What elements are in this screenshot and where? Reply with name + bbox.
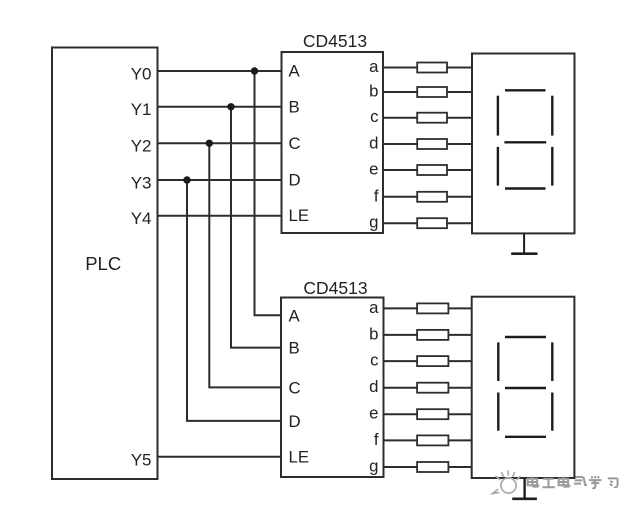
- DS1 segment c: [551, 147, 553, 186]
- junction dot node C: [206, 140, 213, 147]
- watermark char 学: [589, 476, 601, 488]
- svg-text:c: c: [370, 351, 378, 370]
- wire U2 b to R9: [384, 334, 418, 336]
- label Y1: [131, 100, 152, 119]
- label U2 CD4513: [303, 278, 367, 298]
- svg-text:e: e: [369, 404, 378, 423]
- svg-text:Y2: Y2: [131, 137, 152, 156]
- resistor R11: [417, 383, 448, 393]
- svg-text:Y3: Y3: [131, 173, 152, 192]
- DS1 segment e: [497, 147, 499, 186]
- IC U2 CD4513 (lower) box: [281, 298, 384, 478]
- wire R4 to DS1: [447, 143, 472, 145]
- DS1 segment g: [504, 141, 546, 143]
- resistor R12: [417, 409, 448, 419]
- wire R7 to DS1: [447, 222, 472, 224]
- svg-text:b: b: [369, 82, 378, 101]
- label U1 pin C: [289, 134, 301, 153]
- wire R2 to DS1: [447, 91, 472, 93]
- resistor R6: [417, 192, 447, 202]
- resistor R14: [417, 462, 448, 472]
- resistor R7: [417, 218, 447, 228]
- wire node A branch to U2 pin A: [255, 71, 282, 315]
- DS1 segment f: [497, 96, 499, 136]
- resistor R9: [417, 330, 448, 340]
- svg-text:g: g: [369, 457, 378, 476]
- wire R10 to DS2: [448, 360, 471, 362]
- wire node B branch to U2 pin B: [231, 107, 282, 348]
- svg-text:Y5: Y5: [131, 451, 152, 470]
- svg-text:Y0: Y0: [131, 64, 152, 83]
- svg-text:a: a: [369, 298, 379, 317]
- wire R3 to DS1: [447, 117, 472, 119]
- svg-text:e: e: [369, 160, 378, 179]
- watermark char 电 (2): [559, 477, 570, 487]
- wire Y3 to U1 pin D: [158, 179, 282, 181]
- label PLC: [85, 253, 121, 274]
- resistor R3: [417, 113, 447, 123]
- label Y5: [131, 451, 152, 470]
- DS1 segment a: [505, 89, 546, 91]
- svg-text:f: f: [374, 186, 379, 205]
- wire R13 to DS2: [448, 439, 471, 441]
- ground DS1: [511, 233, 537, 253]
- label U2 pin C: [289, 378, 301, 397]
- DS2 segment g: [505, 387, 546, 389]
- resistor R2: [417, 87, 447, 97]
- label Y3: [131, 173, 152, 192]
- label U1 CD4513: [303, 31, 367, 51]
- wire Y5 to U2 pin LE: [158, 456, 282, 458]
- resistor R4: [417, 139, 447, 149]
- DS2 segment e: [497, 393, 499, 431]
- wire U2 e to R12: [384, 413, 418, 415]
- label U1 pin b: [369, 82, 378, 101]
- label U1 pin B: [289, 97, 300, 116]
- junction dot node D: [183, 176, 190, 183]
- svg-text:D: D: [289, 412, 301, 431]
- label U2 pin d: [369, 377, 378, 396]
- watermark char 工: [543, 479, 555, 487]
- svg-text:LE: LE: [289, 206, 310, 225]
- wire U2 d to R11: [384, 387, 418, 389]
- svg-text:a: a: [369, 57, 379, 76]
- PLC box: [52, 48, 158, 480]
- wire Y0 to U1 pin A: [158, 70, 282, 72]
- wire U2 f to R13: [384, 439, 418, 441]
- wire node C branch to U2 pin C: [209, 143, 281, 387]
- resistor R1: [417, 63, 447, 73]
- svg-text:f: f: [374, 430, 379, 449]
- resistor R5: [417, 165, 447, 175]
- wire R12 to DS2: [448, 413, 471, 415]
- label U1 pin D: [289, 171, 301, 190]
- label Y2: [131, 137, 152, 156]
- label U1 pin a: [369, 57, 379, 76]
- resistor R13: [417, 435, 448, 445]
- svg-text:LE: LE: [289, 448, 310, 467]
- wire R14 to DS2: [448, 466, 471, 468]
- wire R1 to DS1: [447, 67, 472, 69]
- label U1 pin A: [289, 62, 301, 81]
- 7-segment display DS2 box: [472, 297, 575, 478]
- wire R11 to DS2: [448, 387, 471, 389]
- wire U2 c to R10: [384, 360, 418, 362]
- wire U2 g to R14: [384, 466, 418, 468]
- svg-text:B: B: [289, 339, 300, 358]
- wire U1 e to R5: [383, 169, 417, 171]
- label U1 pin e: [369, 160, 378, 179]
- wire U1 b to R2: [383, 91, 417, 93]
- wire U1 g to R7: [383, 222, 417, 224]
- wire U1 c to R3: [383, 117, 417, 119]
- DS1 segment d: [505, 187, 546, 189]
- watermark text 电工电气学习: [528, 476, 618, 488]
- svg-text:CD4513: CD4513: [303, 278, 367, 298]
- wire U1 d to R4: [383, 143, 417, 145]
- svg-text:d: d: [369, 134, 378, 153]
- wire R5 to DS1: [447, 169, 472, 171]
- label U1 pin g: [369, 213, 378, 232]
- svg-text:A: A: [289, 306, 301, 325]
- label U2 pin B: [289, 339, 300, 358]
- label Y4: [131, 209, 152, 228]
- label U2 pin c: [370, 351, 378, 370]
- wire Y4 to U1 pin LE: [158, 215, 282, 217]
- watermark char 习: [608, 478, 618, 487]
- svg-text:Y4: Y4: [131, 209, 152, 228]
- label U2 pin a: [369, 298, 379, 317]
- svg-text:g: g: [369, 213, 378, 232]
- svg-text:PLC: PLC: [85, 253, 121, 274]
- watermark char 电 (1): [528, 477, 539, 487]
- watermark icon lightbulb: [493, 471, 521, 494]
- wire R6 to DS1: [447, 196, 472, 198]
- DS2 segment d: [505, 436, 546, 438]
- wire Y2 to U1 pin C: [158, 142, 282, 144]
- ground DS2: [512, 478, 537, 499]
- svg-text:C: C: [289, 134, 301, 153]
- wire U1 f to R6: [383, 196, 417, 198]
- svg-text:CD4513: CD4513: [303, 31, 367, 51]
- label U1 pin LE: [289, 206, 310, 225]
- DS2 segment f: [497, 342, 499, 381]
- IC U1 CD4513 (upper) box: [282, 52, 384, 233]
- wire R9 to DS2: [448, 334, 471, 336]
- label U2 pin e: [369, 404, 378, 423]
- svg-text:D: D: [289, 171, 301, 190]
- DS2 segment a: [505, 336, 546, 338]
- junction dot node A: [251, 67, 258, 74]
- svg-text:A: A: [289, 62, 301, 81]
- DS2 segment b: [551, 342, 553, 381]
- svg-text:C: C: [289, 378, 301, 397]
- label U1 pin f: [374, 186, 379, 205]
- wire U1 a to R1: [383, 67, 417, 69]
- DS1 segment b: [551, 96, 553, 136]
- resistor R10: [417, 356, 448, 366]
- wire R8 to DS2: [448, 307, 471, 309]
- junction dot node B: [227, 103, 234, 110]
- wire U2 a to R8: [384, 307, 418, 309]
- label U2 pin A: [289, 306, 301, 325]
- label Y0: [131, 64, 152, 83]
- resistor R8: [417, 303, 448, 313]
- 7-segment display DS1 box: [472, 54, 575, 234]
- watermark char 气: [574, 477, 586, 486]
- svg-text:d: d: [369, 377, 378, 396]
- wire node D branch to U2 pin D: [187, 180, 282, 421]
- svg-text:c: c: [370, 107, 378, 126]
- label U1 pin d: [369, 134, 378, 153]
- label U2 pin b: [369, 324, 378, 343]
- label U2 pin LE: [289, 448, 310, 467]
- label U1 pin c: [370, 107, 378, 126]
- DS2 segment c: [551, 393, 553, 431]
- label U2 pin f: [374, 430, 379, 449]
- svg-text:B: B: [289, 97, 300, 116]
- label U2 pin g: [369, 457, 378, 476]
- svg-text:b: b: [369, 324, 378, 343]
- label U2 pin D: [289, 412, 301, 431]
- wire Y1 to U1 pin B: [158, 106, 282, 108]
- svg-text:Y1: Y1: [131, 100, 152, 119]
